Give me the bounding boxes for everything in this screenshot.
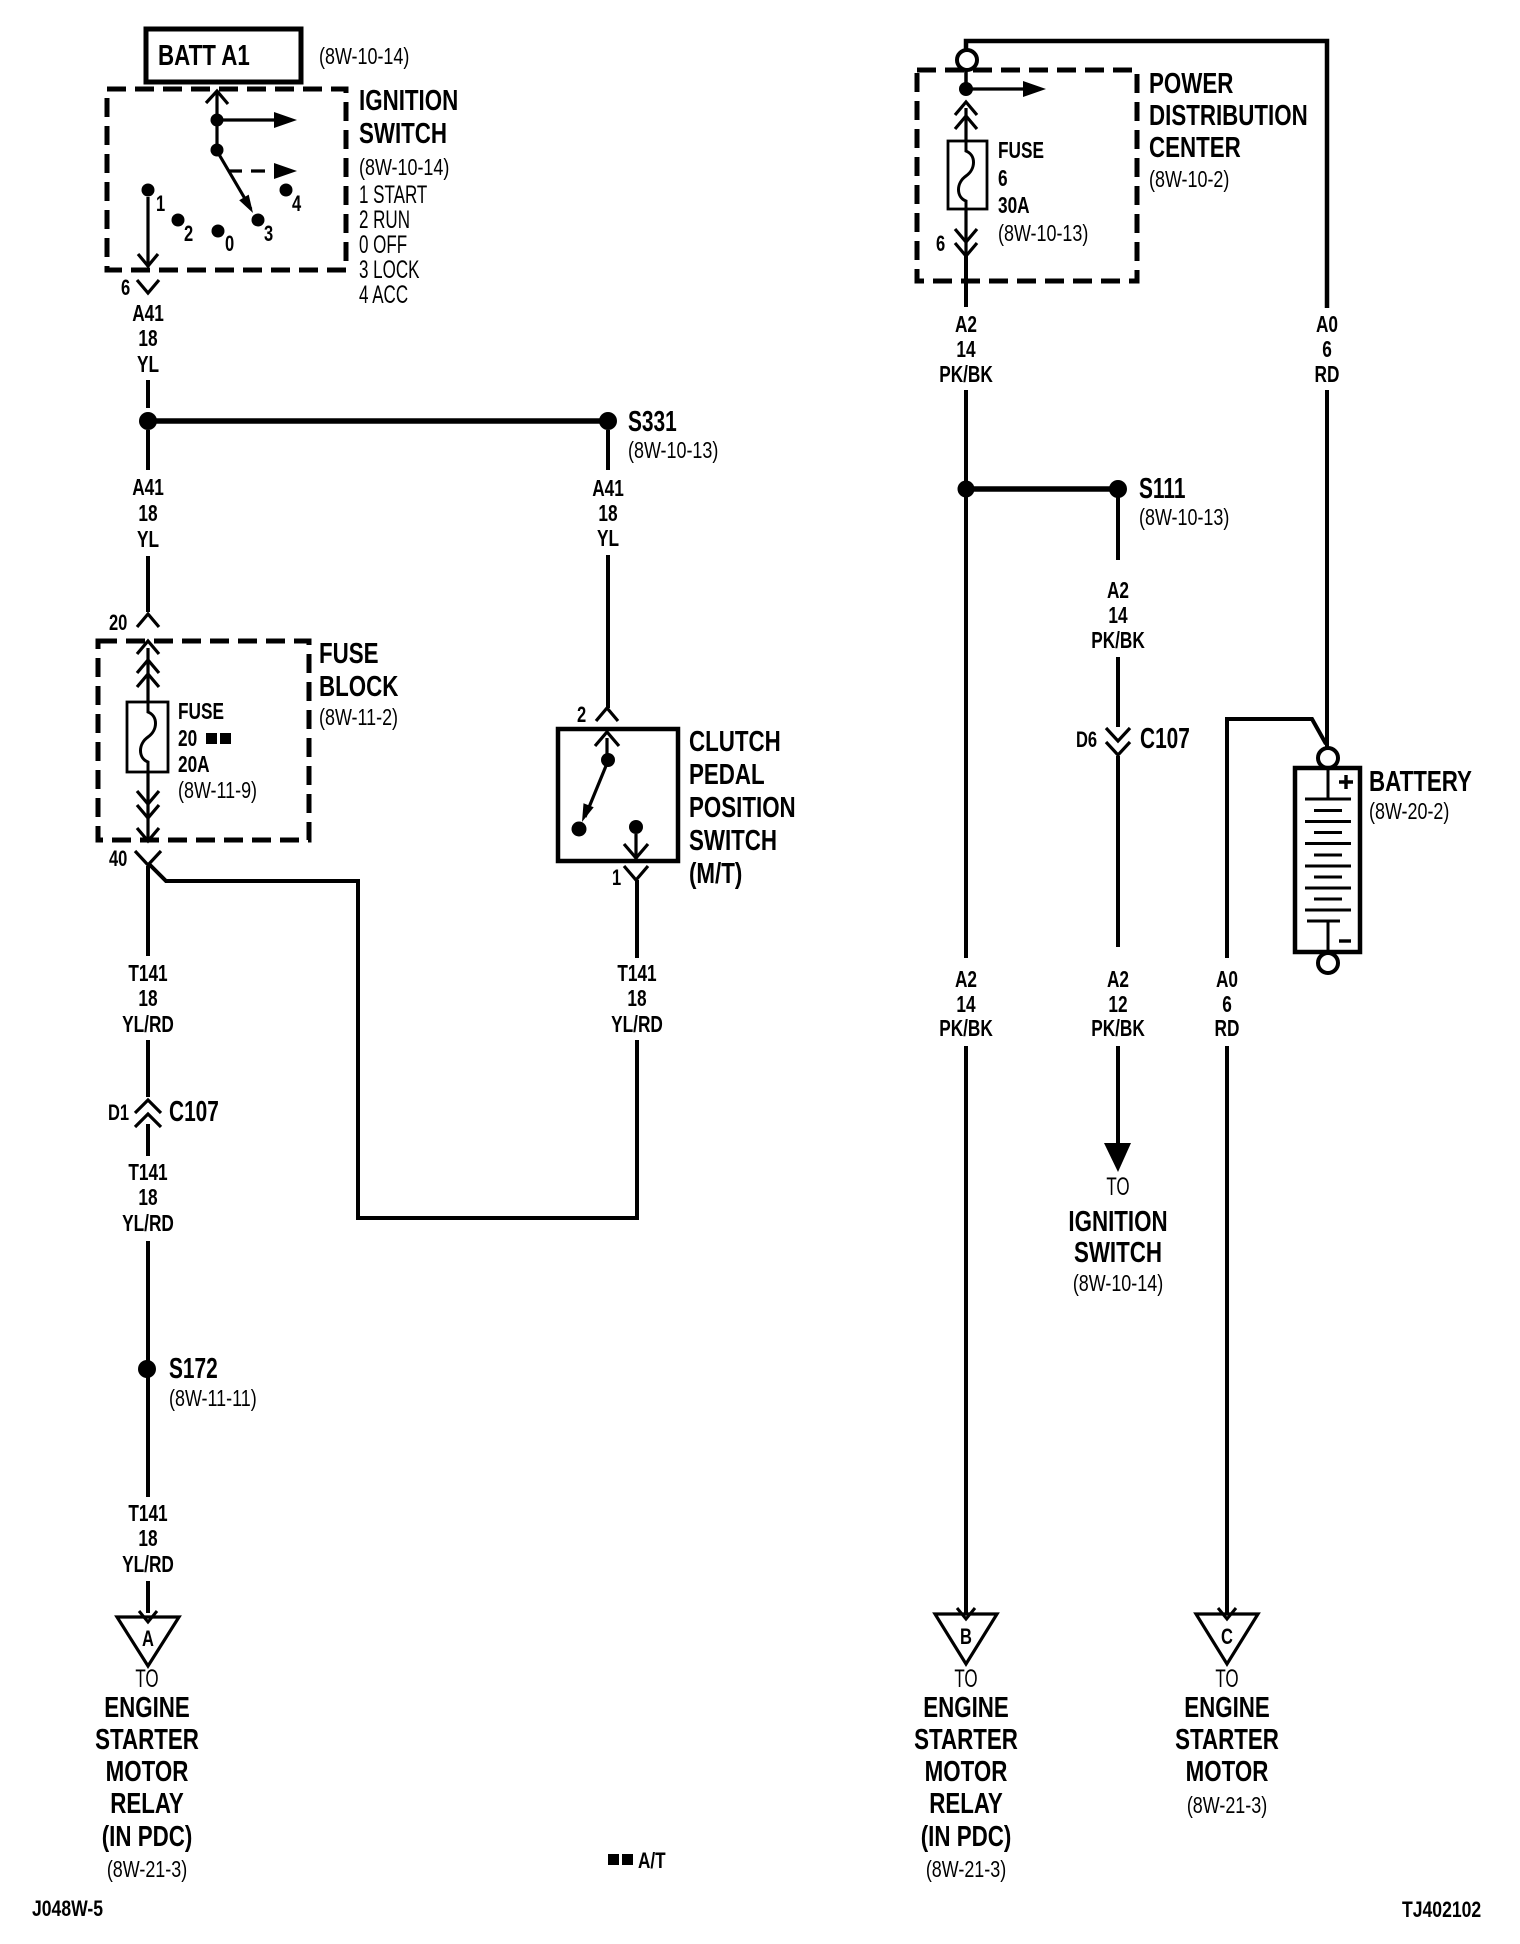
svg-text:YL: YL — [137, 353, 159, 378]
svg-text:RELAY: RELAY — [929, 1788, 1003, 1819]
svg-text:YL/RD: YL/RD — [611, 1013, 663, 1038]
wire label T141 18 YL/RD (clutch) — [611, 962, 663, 1038]
clutch output arrow — [624, 834, 648, 861]
wire — [964, 1046, 968, 1614]
svg-text:BATTERY: BATTERY — [1369, 766, 1472, 797]
svg-text:C: C — [1221, 1625, 1233, 1650]
battery negative ring terminal — [1318, 953, 1338, 973]
off-page connector A — [117, 1611, 179, 1666]
PDC fuse input chevrons — [955, 102, 977, 141]
clutch lower-right contact dot — [629, 820, 643, 834]
svg-text:D1: D1 — [108, 1101, 129, 1126]
svg-text:MOTOR: MOTOR — [106, 1756, 189, 1787]
wire label T141 18 YL/RD (3) — [122, 1502, 174, 1578]
svg-text:C107: C107 — [1140, 723, 1190, 755]
svg-text:14: 14 — [956, 993, 976, 1018]
svg-text:FUSE: FUSE — [178, 700, 224, 725]
fuse output chevrons — [137, 772, 159, 841]
svg-text:B: B — [960, 1625, 972, 1650]
svg-text:18: 18 — [138, 987, 157, 1012]
svg-text:(M/T): (M/T) — [689, 858, 742, 889]
svg-text:PK/BK: PK/BK — [939, 363, 993, 388]
ignition wiper arm to position 3 — [217, 151, 253, 213]
svg-text:40: 40 — [109, 847, 128, 872]
svg-text:18: 18 — [138, 1527, 157, 1552]
svg-text:PEDAL: PEDAL — [689, 759, 765, 790]
svg-text:S111: S111 — [1139, 473, 1185, 505]
svg-text:CENTER: CENTER — [1149, 132, 1241, 163]
ignition switch label — [359, 85, 458, 308]
wire battery positive branch — [1227, 719, 1326, 958]
svg-text:SWITCH: SWITCH — [689, 825, 777, 856]
fuse F6 symbol — [948, 141, 987, 209]
wire — [146, 556, 150, 612]
connector C107 pin D6 chevrons — [1106, 728, 1130, 755]
svg-text:18: 18 — [138, 1186, 157, 1211]
svg-text:A: A — [142, 1627, 154, 1652]
battery positive ring terminal — [1318, 748, 1338, 768]
wire — [635, 1040, 639, 1220]
wire label A2 12 PK/BK — [1091, 968, 1145, 1042]
svg-text:A2: A2 — [955, 313, 977, 338]
svg-text:C107: C107 — [169, 1096, 219, 1128]
wire wiper link — [215, 120, 218, 150]
svg-text:YL/RD: YL/RD — [122, 1553, 174, 1578]
svg-text:6: 6 — [1222, 993, 1232, 1018]
clutch input chevron — [595, 732, 619, 756]
PDC label — [1149, 68, 1308, 192]
wire label A41 18 YL (2) — [132, 476, 164, 553]
clutch pin 1 terminal — [624, 866, 648, 880]
splice S331 dot — [599, 412, 617, 430]
svg-text:TO: TO — [1106, 1173, 1129, 1201]
svg-text:D6: D6 — [1076, 728, 1097, 753]
svg-text:18: 18 — [138, 502, 157, 527]
svg-text:0: 0 — [225, 232, 234, 257]
fuse F6 labels — [998, 139, 1088, 247]
ignition wiper dot lower — [211, 144, 224, 157]
ignition wiper dot upper — [211, 114, 224, 127]
svg-text:18: 18 — [627, 987, 646, 1012]
ignition dashed arrow (ACC feed) — [228, 163, 297, 179]
svg-text:(8W-10-13): (8W-10-13) — [998, 221, 1088, 247]
wire label A0 6 RD (1) — [1315, 313, 1340, 388]
svg-text:3: 3 — [264, 222, 273, 247]
legend A/T marker — [608, 1849, 666, 1874]
splice junction dot — [139, 412, 157, 430]
off-page connector C — [1196, 1608, 1258, 1664]
svg-text:MOTOR: MOTOR — [1186, 1756, 1269, 1787]
wire branch diagonal to clutch feed — [148, 863, 637, 1218]
clutch upper contact dot — [601, 753, 615, 767]
wire — [1116, 756, 1120, 947]
svg-text:STARTER: STARTER — [95, 1724, 199, 1755]
svg-text:PK/BK: PK/BK — [939, 1017, 993, 1042]
wire — [964, 497, 968, 958]
svg-text:CLUTCH: CLUTCH — [689, 726, 781, 757]
ignition solid arrow right (RUN feed) — [217, 112, 297, 128]
svg-text:SWITCH: SWITCH — [1074, 1237, 1162, 1268]
svg-text:(IN PDC): (IN PDC) — [102, 1821, 193, 1852]
splice junction dot (left) — [958, 481, 975, 498]
battery BATTERY — [1295, 768, 1360, 952]
svg-text:PK/BK: PK/BK — [1091, 1017, 1145, 1042]
svg-text:12: 12 — [1108, 993, 1127, 1018]
wire — [146, 1040, 150, 1097]
svg-text:J048W-5: J048W-5 — [32, 1897, 103, 1921]
ignition position 2 contact — [172, 214, 185, 227]
splice S172 dot — [138, 1360, 156, 1378]
clutch pedal position switch box — [558, 729, 678, 861]
svg-text:STARTER: STARTER — [1175, 1724, 1279, 1755]
svg-text:T141: T141 — [128, 1502, 167, 1527]
svg-text:2 RUN: 2 RUN — [359, 206, 410, 234]
svg-text:IGNITION: IGNITION — [359, 85, 458, 116]
svg-text:(8W-10-14): (8W-10-14) — [1073, 1271, 1163, 1297]
ignition position 0 contact — [212, 225, 225, 238]
svg-text:A/T: A/T — [638, 1849, 666, 1874]
wire — [146, 648, 149, 702]
ignition feed arrow to BATT A1 — [206, 91, 228, 120]
svg-text:YL: YL — [137, 528, 159, 553]
svg-text:S172: S172 — [169, 1353, 218, 1385]
svg-text:20: 20 — [178, 727, 197, 752]
svg-text:POSITION: POSITION — [689, 792, 796, 823]
destination text B — [914, 1665, 1018, 1883]
svg-text:4 ACC: 4 ACC — [359, 281, 408, 309]
wire position1 to pin 6 — [138, 197, 158, 267]
svg-text:MOTOR: MOTOR — [925, 1756, 1008, 1787]
svg-text:YL/RD: YL/RD — [122, 1013, 174, 1038]
destination text C — [1175, 1665, 1279, 1819]
wire out of PDC — [964, 256, 968, 307]
wire — [146, 1241, 150, 1362]
svg-text:(8W-11-2): (8W-11-2) — [319, 705, 398, 731]
svg-text:RD: RD — [1215, 1017, 1240, 1042]
svg-text:30A: 30A — [998, 194, 1030, 219]
wire label A41 18 YL (1) — [132, 302, 164, 378]
svg-text:T141: T141 — [617, 962, 656, 987]
ignition position 4 contact — [280, 184, 293, 197]
svg-text:T141: T141 — [128, 1161, 167, 1186]
PDC bus arrow right — [966, 81, 1046, 97]
wire label A2 14 PK/BK (1) — [939, 313, 993, 388]
wire — [964, 390, 968, 482]
svg-text:S331: S331 — [628, 406, 677, 438]
eyelet terminal at PDC — [957, 50, 977, 70]
wire ring to bus dot — [964, 70, 968, 89]
svg-text:TO: TO — [954, 1665, 977, 1693]
fuse F20 symbol — [127, 702, 168, 772]
svg-text:FUSE: FUSE — [319, 638, 379, 669]
svg-text:1: 1 — [612, 866, 621, 891]
wire — [146, 1581, 150, 1613]
fuse block label — [319, 638, 399, 730]
svg-text:6: 6 — [1322, 338, 1332, 363]
svg-text:(8W-10-13): (8W-10-13) — [628, 438, 718, 464]
svg-text:2: 2 — [577, 703, 586, 728]
svg-text:DISTRIBUTION: DISTRIBUTION — [1149, 100, 1308, 131]
svg-text:TJ402102: TJ402102 — [1402, 1898, 1481, 1922]
svg-text:(8W-10-2): (8W-10-2) — [1149, 167, 1229, 193]
wire to S111 — [966, 486, 1118, 492]
svg-text:TO: TO — [1215, 1665, 1238, 1693]
wire down from fuse 40 — [146, 866, 150, 956]
svg-text:0 OFF: 0 OFF — [359, 231, 407, 259]
svg-text:14: 14 — [956, 338, 976, 363]
svg-text:(IN PDC): (IN PDC) — [921, 1821, 1012, 1852]
svg-text:3 LOCK: 3 LOCK — [359, 256, 419, 284]
wire from S111 down — [1116, 497, 1120, 560]
svg-text:A41: A41 — [592, 477, 624, 502]
svg-text:SWITCH: SWITCH — [359, 118, 447, 149]
fuse block cavity 20 terminal — [137, 614, 159, 687]
wire — [146, 1124, 150, 1156]
A/T marker squares by fuse 20 — [206, 733, 231, 744]
svg-text:ENGINE: ENGINE — [923, 1692, 1009, 1723]
svg-text:(8W-21-3): (8W-21-3) — [107, 1857, 187, 1883]
ignition position 1 contact — [142, 184, 155, 197]
svg-text:2: 2 — [184, 222, 193, 247]
wire label A0 6 RD (2) — [1215, 968, 1240, 1042]
svg-text:4: 4 — [292, 192, 301, 217]
wire label T141 18 YL/RD (2) — [122, 1161, 174, 1237]
clutch pin 2 terminal — [596, 708, 618, 721]
wire — [606, 555, 610, 708]
clutch switch arm — [582, 761, 608, 822]
fuse F20 labels — [178, 700, 257, 804]
ignition position 3 contact — [252, 214, 265, 227]
svg-text:18: 18 — [598, 502, 617, 527]
ignition position labels — [156, 192, 301, 257]
svg-text:POWER: POWER — [1149, 68, 1234, 99]
svg-text:A2: A2 — [1107, 579, 1129, 604]
box BATT A1 — [146, 29, 301, 82]
PDC bus dot — [959, 82, 973, 96]
svg-text:1: 1 — [156, 192, 165, 217]
wire — [1225, 1046, 1229, 1614]
svg-text:(8W-11-11): (8W-11-11) — [169, 1386, 257, 1412]
svg-text:BATT A1: BATT A1 — [158, 40, 250, 71]
svg-text:A0: A0 — [1316, 313, 1338, 338]
svg-text:18: 18 — [138, 327, 157, 352]
svg-text:YL: YL — [597, 527, 619, 552]
clutch switch label — [689, 726, 796, 889]
svg-text:A2: A2 — [955, 968, 977, 993]
svg-text:(8W-10-14): (8W-10-14) — [359, 155, 449, 181]
svg-text:A0: A0 — [1216, 968, 1238, 993]
svg-text:(8W-21-3): (8W-21-3) — [926, 1857, 1006, 1883]
svg-text:STARTER: STARTER — [914, 1724, 1018, 1755]
wire label A41 18 YL (3) — [592, 477, 624, 552]
svg-text:TO: TO — [135, 1665, 158, 1693]
svg-text:14: 14 — [1108, 604, 1128, 629]
wire label T141 18 YL/RD (1) — [122, 962, 174, 1038]
wire below clutch — [635, 880, 639, 958]
svg-text:(8W-20-2): (8W-20-2) — [1369, 799, 1449, 825]
wire from S331 down — [606, 430, 610, 470]
pin 40 terminal — [135, 851, 161, 865]
svg-text:RELAY: RELAY — [110, 1788, 184, 1819]
svg-text:A2: A2 — [1107, 968, 1129, 993]
wire — [146, 430, 150, 470]
destination text A — [95, 1665, 199, 1883]
wire with arrow to ignition switch feed — [1104, 1046, 1131, 1172]
svg-text:(8W-10-13): (8W-10-13) — [1139, 505, 1229, 531]
svg-text:20A: 20A — [178, 753, 210, 778]
svg-text:YL/RD: YL/RD — [122, 1212, 174, 1237]
svg-text:ENGINE: ENGINE — [1184, 1692, 1270, 1723]
wire to S331 — [148, 418, 608, 424]
svg-text:1 START: 1 START — [359, 181, 427, 209]
svg-text:A41: A41 — [132, 476, 164, 501]
svg-text:IGNITION: IGNITION — [1068, 1206, 1167, 1237]
fuse F6 output chevrons — [955, 209, 977, 256]
ignition switch box (dashed) — [107, 89, 346, 270]
wire — [1116, 657, 1120, 727]
clutch lower-left contact dot — [572, 822, 587, 837]
svg-text:FUSE: FUSE — [998, 139, 1044, 164]
connector C107 pin D1 chevrons — [135, 1100, 161, 1127]
destination text ignition switch — [1068, 1173, 1167, 1297]
off-page connector B — [935, 1608, 997, 1664]
svg-text:6: 6 — [121, 276, 130, 301]
fuse block box (dashed) — [98, 641, 309, 840]
svg-text:(8W-21-3): (8W-21-3) — [1187, 1793, 1267, 1819]
svg-text:6: 6 — [936, 232, 945, 257]
power distribution center box (dashed) — [917, 70, 1137, 281]
wire label A2 14 PK/BK (2) — [1091, 579, 1145, 654]
svg-text:(8W-11-9): (8W-11-9) — [178, 778, 257, 804]
wire — [146, 1377, 150, 1497]
svg-text:PK/BK: PK/BK — [1091, 629, 1145, 654]
svg-text:A41: A41 — [132, 302, 164, 327]
svg-text:T141: T141 — [128, 962, 167, 987]
splice S111 dot — [1109, 480, 1127, 498]
wire label A2 14 PK/BK (3) — [939, 968, 993, 1042]
wire battery feed top — [966, 41, 1327, 308]
pin 6 terminal — [137, 280, 159, 293]
svg-text:6: 6 — [998, 167, 1008, 192]
svg-text:RD: RD — [1315, 363, 1340, 388]
svg-text:BLOCK: BLOCK — [319, 671, 399, 702]
svg-text:ENGINE: ENGINE — [104, 1692, 190, 1723]
svg-text:(8W-10-14): (8W-10-14) — [319, 44, 409, 70]
svg-text:20: 20 — [109, 611, 128, 636]
wire — [146, 380, 150, 408]
